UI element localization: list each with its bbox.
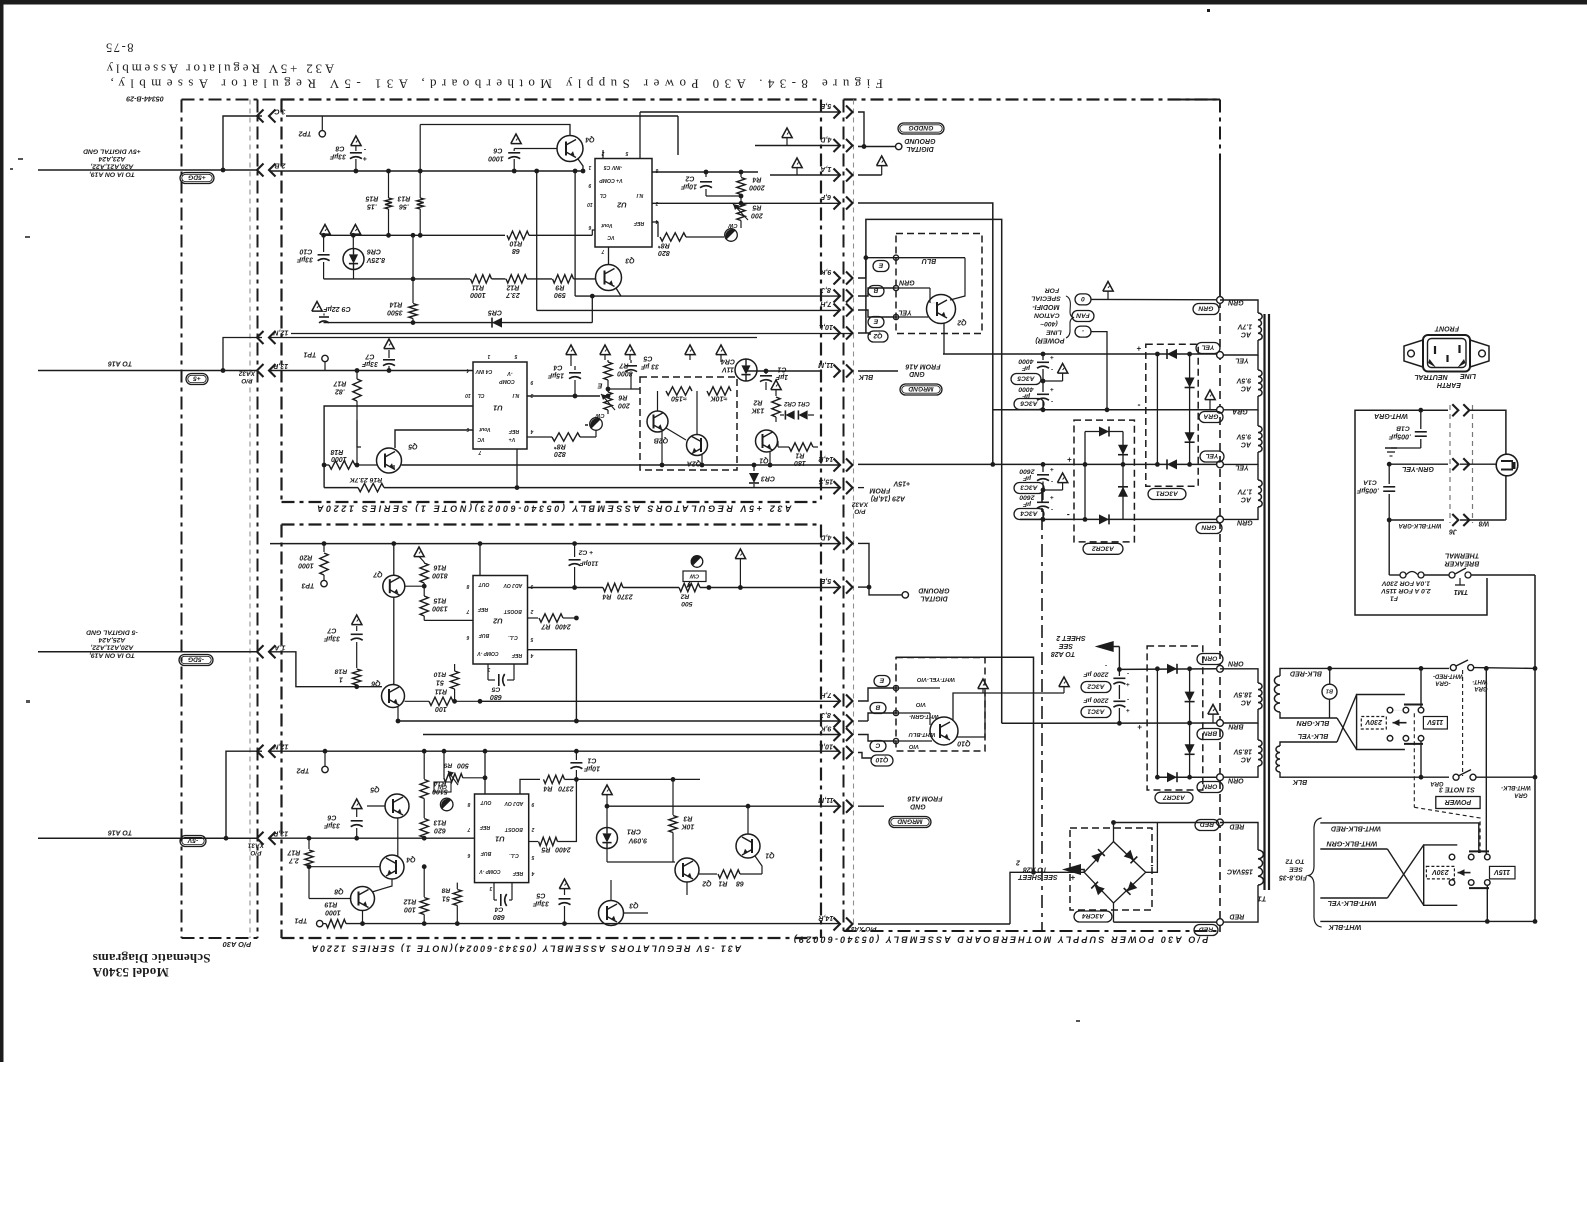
net tag C q10 [870, 741, 886, 752]
svg-text:R3: R3 [683, 815, 692, 822]
wire 11M mb [858, 370, 898, 372]
svg-text:13K: 13K [751, 407, 765, 414]
page frame left edge [0, 0, 4, 1062]
diode A3CR2c [1118, 487, 1128, 497]
bus -17 [993, 409, 1220, 411]
thermal breaker TM1 [1449, 572, 1455, 578]
svg-text:U2: U2 [616, 200, 626, 209]
net tag BRN oval [1197, 729, 1223, 740]
svg-text:R9: R9 [555, 284, 564, 291]
svg-text:100: 100 [404, 906, 416, 913]
svg-text:SPECIAL: SPECIAL [1031, 295, 1060, 302]
svg-text:R6: R6 [618, 394, 627, 401]
net label -5DG [179, 655, 213, 666]
svg-text:WHT-: WHT- [1472, 678, 1487, 684]
svg-text:100: 100 [435, 705, 447, 712]
flag 1A mb ground [858, 174, 882, 176]
resistor R1 180 [789, 443, 813, 451]
lamp B1 [1327, 666, 1332, 671]
svg-text:2.0 A FOR 115V: 2.0 A FOR 115V [1380, 587, 1432, 594]
net label A3CR7 [1155, 792, 1193, 803]
wire ov bus right [576, 778, 700, 780]
resistor R20 1000 [323, 544, 325, 552]
wire -5DG feed [38, 651, 258, 653]
wire q4 base [514, 148, 557, 150]
svg-text:1.7V: 1.7V [1236, 488, 1252, 495]
wire 7H mb lower [858, 688, 896, 701]
resistor R11 100 [405, 700, 430, 702]
capacitor A3C4 2600uF [1042, 490, 1044, 500]
svg-text:TP1: TP1 [303, 351, 316, 358]
svg-text:U1: U1 [495, 834, 505, 843]
svg-text:C1: C1 [587, 757, 596, 764]
svg-text:+5: +5 [193, 375, 201, 382]
wire q7 base link [405, 585, 424, 587]
svg-text:AC: AC [1240, 756, 1252, 763]
svg-text:WHT-BLK-RED: WHT-BLK-RED [1331, 824, 1381, 832]
svg-text:-5 DIGITAL GND: -5 DIGITAL GND [86, 629, 138, 636]
wire inlet line [1469, 410, 1506, 454]
wire 8J mb [858, 288, 896, 296]
svg-text:+: + [1067, 455, 1072, 464]
capacitor C6 33uF a31 [352, 799, 362, 809]
bus ORN lower [1157, 776, 1220, 778]
svg-text:R4: R4 [602, 593, 611, 600]
svg-text:R10: R10 [434, 671, 447, 678]
dashed box Q2A Q2B [640, 377, 737, 470]
wire U1 NI right [527, 395, 600, 397]
net label A3C5 [1011, 374, 1041, 385]
svg-text:BRN: BRN [1227, 723, 1243, 730]
svg-text:33 µF: 33 µF [640, 363, 659, 370]
resistor R17 .82 [356, 371, 358, 380]
resistor R10 51 [450, 671, 458, 689]
diode A3CR7a [1167, 664, 1177, 674]
svg-text:THERMAL: THERMAL [1445, 552, 1479, 559]
resistor R15 .15 [388, 171, 390, 198]
wire q2 collector [950, 258, 965, 300]
diode A3CR2b [1118, 445, 1128, 455]
flag row a32 lower [566, 345, 576, 355]
digital ground lower xa31 [858, 543, 902, 595]
wire q1 base r1 [777, 441, 779, 447]
resistor R4 2370 a31 [544, 775, 565, 783]
svg-text:REF: REF [633, 220, 644, 226]
svg-text:R1: R1 [795, 452, 804, 459]
node GRN top [1217, 297, 1224, 304]
svg-text:YEL: YEL [1201, 344, 1214, 351]
svg-text:XA32: XA32 [851, 501, 869, 508]
speck a [18, 158, 23, 160]
wire q7 collector [393, 544, 395, 576]
winding secondary 4 1.7V [1257, 464, 1259, 480]
svg-text:14,R: 14,R [818, 455, 834, 463]
svg-text:-: - [1051, 506, 1053, 513]
diode A3CR1d [1167, 459, 1177, 469]
svg-text:A3CR7: A3CR7 [1163, 793, 1186, 800]
svg-text:-: - [1105, 662, 1107, 669]
bridge A3CR2 right leg [1122, 432, 1124, 520]
svg-text:+: + [1050, 354, 1054, 361]
resistor R4 2000 [740, 172, 742, 177]
digital ground terminal upper [896, 143, 902, 149]
svg-text:9.09V: 9.09V [628, 837, 648, 844]
diode A3CR1c [1185, 432, 1195, 442]
node GRA [1217, 406, 1224, 413]
svg-text:9: 9 [530, 379, 533, 385]
wire q3 leads [610, 880, 612, 901]
transistor Q5 a32 [377, 448, 402, 473]
svg-text:TP1: TP1 [294, 917, 307, 924]
svg-text:4,D: 4,D [820, 533, 832, 541]
svg-text:R10: R10 [509, 240, 522, 247]
svg-text:SEE: SEE [1289, 866, 1303, 873]
svg-text:15,S: 15,S [818, 478, 833, 486]
fuse F1 [1389, 574, 1400, 576]
svg-text:8.25V: 8.25V [366, 256, 386, 263]
svg-text:2200 µF: 2200 µF [1083, 671, 1110, 678]
svg-text:6: 6 [466, 634, 469, 640]
wire q4 emitter [578, 159, 583, 171]
svg-text:33µF: 33µF [296, 256, 313, 263]
svg-text:5: 5 [514, 353, 517, 359]
wire 7H bus a31 [480, 700, 840, 702]
wire 6F mb long feed [858, 203, 993, 464]
svg-text:13,P: 13,P [273, 829, 288, 837]
bus -9.5 GRN [1020, 518, 1220, 520]
wire NI bus 6F [652, 202, 840, 204]
wire BLK-RED top [1284, 667, 1449, 669]
svg-text:FROM A16: FROM A16 [905, 363, 940, 370]
resistor R7 8000 [607, 360, 609, 362]
svg-text:10µF: 10µF [583, 765, 600, 772]
resistor R15 1300 [420, 596, 428, 616]
capacitor A3C2 2200uF [1118, 669, 1120, 676]
svg-text:BLK-RED: BLK-RED [1290, 669, 1322, 677]
svg-text:B: B [873, 287, 878, 294]
svg-text:C9 22µF: C9 22µF [323, 305, 351, 313]
svg-text:WHT-BLK-YEL: WHT-BLK-YEL [1328, 899, 1377, 907]
transistor Q8 [351, 887, 375, 911]
label +15V FROM A29 [858, 487, 864, 489]
svg-text:BOOST: BOOST [503, 608, 522, 614]
wire q8 base link [309, 898, 351, 900]
svg-text:33µF: 33µF [323, 635, 340, 642]
svg-text:TO A28: TO A28 [1051, 650, 1075, 657]
svg-text:2400: 2400 [555, 623, 572, 630]
connector pin 10,L XA32 [834, 327, 841, 340]
svg-text:E: E [873, 318, 878, 325]
wire 12N-10L full bus a31 [270, 750, 840, 752]
junction 1486 top [1484, 666, 1489, 671]
svg-text:6: 6 [466, 426, 469, 432]
svg-text:POWER: POWER [1445, 798, 1471, 805]
svg-text:33µF: 33µF [361, 360, 378, 367]
svg-text:1000: 1000 [298, 562, 314, 569]
svg-text:R19: R19 [324, 901, 337, 908]
flag 4D pair [782, 128, 792, 138]
wire BUF right drop [528, 650, 577, 721]
zener CR1 9.09V [597, 828, 618, 849]
wire 11M bus a31 [607, 805, 840, 807]
svg-text:155VAC: 155VAC [1226, 868, 1253, 875]
svg-text:R5: R5 [541, 846, 550, 853]
svg-text:AC: AC [1240, 496, 1252, 503]
wire +5V feed [38, 169, 258, 171]
svg-text:8-75: 8-75 [105, 41, 134, 55]
wire WHT-YEL-VIO [896, 687, 940, 689]
wire U1 ref drop [516, 449, 518, 488]
svg-text:-V: -V [507, 370, 513, 376]
svg-text:R14: R14 [389, 301, 402, 308]
svg-text:A32 +5V Regulator Assembly: A32 +5V Regulator Assembly [104, 61, 334, 76]
wiper circle R6 [590, 418, 603, 431]
connector spine XA32/XA31 left [249, 100, 251, 939]
wire q6 emitter [397, 707, 399, 721]
svg-text:-GRA: -GRA [1435, 679, 1450, 685]
capacitor A3C6 4000uF [1042, 381, 1044, 392]
svg-text:9,K: 9,K [820, 724, 832, 732]
bus +9.5 [990, 462, 995, 467]
flag C10 [320, 225, 330, 235]
svg-text:Q2B: Q2B [654, 437, 668, 444]
svg-text:180: 180 [794, 459, 806, 466]
wire lower selector drop [1486, 885, 1488, 921]
flag R2 [771, 380, 781, 390]
svg-text:4: 4 [530, 652, 534, 658]
diamond bridge A3CR4 [1084, 842, 1146, 903]
arrow selector lower [1458, 872, 1471, 874]
connector pin 12,N left upper [257, 331, 264, 344]
wire bottom bus a31 [346, 923, 840, 925]
pot R9 500 [443, 751, 445, 778]
svg-text:11,M: 11,M [817, 361, 833, 369]
svg-text:-: - [1127, 670, 1129, 677]
svg-text:WHT-GRA: WHT-GRA [1374, 412, 1408, 420]
diode CR3 a32 [753, 465, 755, 471]
net label +5 [186, 374, 208, 385]
svg-text:A23,A24: A23,A24 [98, 155, 126, 162]
svg-text:Q3: Q3 [625, 257, 634, 264]
svg-text:C7: C7 [364, 353, 374, 360]
wire -5 feed TO A16 [38, 370, 258, 372]
svg-text:680: 680 [490, 693, 502, 701]
svg-text:2200 µF: 2200 µF [1083, 697, 1110, 704]
svg-text:-INV C5: -INV C5 [604, 164, 623, 170]
wire 9K q10 [858, 735, 896, 742]
svg-text:R8*: R8* [554, 443, 566, 450]
svg-text:TM1: TM1 [1454, 588, 1468, 596]
svg-text:5,E: 5,E [820, 102, 831, 110]
svg-text:WHT-YEL-VIO: WHT-YEL-VIO [917, 676, 955, 682]
svg-text:A25,A24: A25,A24 [98, 636, 126, 643]
resistor R10 68 [507, 231, 529, 239]
resistor R12 100 [423, 867, 425, 897]
wire NI junction [606, 394, 611, 399]
wire 12N bus a32 [270, 337, 757, 339]
bus -18 ORN [1117, 667, 1122, 672]
svg-text:230V: 230V [1364, 718, 1383, 726]
svg-text:CATION: CATION [1033, 312, 1060, 319]
flag C7 a32 [384, 339, 394, 349]
connector dashed pair J6 [1449, 405, 1451, 523]
winding primary 2 [1280, 742, 1286, 746]
winding secondary 1 1.7V [1220, 300, 1258, 313]
svg-text:1000: 1000 [470, 291, 486, 298]
svg-text:R11: R11 [472, 284, 484, 291]
wiper circle R5 [725, 229, 738, 242]
transformer core [1263, 314, 1265, 890]
connector pin 2,B left [257, 164, 264, 177]
bridge rectifier A3CR2 box [1074, 420, 1134, 542]
svg-text:VC: VC [477, 436, 484, 442]
wire u2 top pin from bus [479, 544, 481, 576]
wire TO A28 lower arrow [1062, 864, 1081, 875]
net tag GRN bottom oval [1196, 523, 1222, 534]
svg-text:FOR: FOR [1045, 287, 1059, 294]
svg-text:14,R: 14,R [818, 914, 834, 922]
bridge A3CR1 right leg [1189, 354, 1191, 464]
svg-text:18.5V: 18.5V [1233, 691, 1253, 698]
net label A3C1 [1081, 707, 1111, 718]
svg-text:7: 7 [601, 248, 604, 254]
wire +5V bus [270, 170, 583, 172]
svg-text:-: - [1051, 478, 1053, 485]
pot R6 200 [607, 389, 609, 392]
svg-text:A3C5: A3C5 [1017, 375, 1035, 382]
svg-text:P/O: P/O [241, 377, 252, 384]
connector pin 7,H XA31 [834, 695, 841, 708]
svg-text:REF: REF [479, 824, 490, 830]
svg-text:LINE: LINE [1460, 372, 1476, 379]
svg-text:1: 1 [339, 675, 343, 683]
capacitor C1 10uF a31 [575, 770, 577, 779]
svg-text:A3C1: A3C1 [1087, 708, 1105, 715]
svg-text:REF: REF [511, 652, 522, 658]
svg-text:C10: C10 [299, 248, 312, 255]
svg-text:Q5: Q5 [370, 786, 379, 793]
svg-text:8100: 8100 [432, 572, 448, 579]
connector pin 10,L XA31 [834, 746, 841, 759]
speck f [585, 424, 588, 426]
svg-text:2370: 2370 [617, 593, 634, 600]
svg-text:+ C2: + C2 [579, 549, 594, 556]
svg-text:OUT: OUT [480, 799, 492, 805]
svg-text:C6: C6 [327, 814, 336, 821]
svg-text:68: 68 [512, 247, 520, 254]
wire 11M mb lower [858, 805, 884, 807]
bus RED upper [1114, 822, 1221, 824]
bus +18 BRN [1002, 722, 1220, 724]
node ORN 1 [1217, 665, 1224, 672]
svg-text:Q3: Q3 [629, 902, 638, 909]
round connector W8 [1496, 454, 1518, 476]
svg-text:10,L: 10,L [819, 323, 833, 331]
wire q4 base link [309, 866, 381, 868]
IC U2 regulator [595, 159, 652, 248]
svg-text:C1A: C1A [1363, 479, 1377, 486]
svg-text:0: 0 [1081, 295, 1085, 302]
wiper circle R9 [440, 798, 453, 811]
net tag RED 1 oval [1195, 820, 1219, 831]
connector pin 5,E XA31 [834, 581, 841, 594]
connector pin 13,P left upper [257, 364, 264, 377]
svg-text:J6: J6 [1449, 528, 1457, 535]
svg-text:GRN: GRN [898, 279, 915, 286]
svg-text:BLU: BLU [921, 257, 936, 264]
svg-text:E: E [879, 677, 884, 684]
wire V+ stub right [652, 171, 758, 173]
capacitor A3C1 2200uF [1113, 700, 1125, 702]
winding secondary 5 18.5V [1220, 669, 1258, 683]
svg-text:Vout: Vout [479, 426, 491, 432]
bridge rectifier A3CR1 box [1146, 344, 1198, 486]
wire q10 collector out [953, 693, 985, 720]
wire U2 top pins [602, 150, 604, 159]
svg-text:Schematic Diagrams: Schematic Diagrams [92, 951, 210, 966]
svg-text:200: 200 [751, 212, 764, 219]
wire q2a emitter to bus [701, 455, 703, 465]
wire 3C sense run [286, 115, 678, 117]
wire diamond feed [1034, 871, 1085, 873]
svg-text:51: 51 [436, 678, 444, 686]
svg-text:WHT-BLK-GRN: WHT-BLK-GRN [1326, 839, 1378, 847]
voltage card 115V upper [1423, 717, 1447, 730]
transistor Q4 [557, 136, 583, 162]
svg-text:FAN: FAN [1076, 312, 1090, 319]
resistor R8* 820 [652, 221, 658, 223]
svg-text:A3C2: A3C2 [1087, 683, 1105, 690]
svg-text:9: 9 [530, 583, 533, 589]
svg-text:+: + [1126, 681, 1130, 688]
wire WHT-GRA [1355, 409, 1444, 411]
wire 8J bus a31 [398, 720, 840, 722]
wire ADJ chain [528, 587, 604, 589]
svg-text:8: 8 [655, 167, 658, 173]
wire OV chain [520, 779, 540, 794]
CW box R2 [683, 571, 706, 582]
svg-text:230V: 230V [1431, 868, 1450, 876]
wire breaker to right rail [1471, 574, 1535, 576]
motherboard border [843, 100, 845, 932]
wire diamond bottom to RED2 [1113, 903, 1115, 922]
svg-text:MODIFI-: MODIFI- [1032, 303, 1060, 311]
flag C8 [351, 136, 361, 146]
diode A3CR7c [1185, 744, 1195, 754]
svg-text:+5DG: +5DG [188, 174, 206, 181]
svg-text:R11: R11 [435, 688, 447, 695]
svg-text:BOOST: BOOST [504, 826, 523, 832]
flag q10 gnd A [978, 679, 988, 689]
svg-text:1.7V: 1.7V [1236, 323, 1252, 330]
voltage card 115V lower [1490, 866, 1516, 879]
svg-text:.005µF: .005µF [1356, 486, 1379, 494]
svg-text:ORN: ORN [1202, 783, 1217, 790]
svg-text:10: 10 [587, 201, 593, 207]
wire E node [608, 388, 631, 390]
net label A3C4 [1014, 509, 1044, 520]
flag gnd B caps [1063, 687, 1065, 693]
selector box 230V upper [1357, 695, 1405, 750]
bus +17 top [943, 353, 1220, 355]
svg-text:YEL: YEL [1235, 357, 1249, 364]
svg-text:110µF: 110µF [579, 560, 599, 567]
svg-text:6: 6 [467, 852, 470, 858]
svg-text:REF: REF [508, 428, 519, 434]
svg-text:+: + [1070, 873, 1075, 882]
svg-text:A3C6: A3C6 [1020, 400, 1038, 407]
svg-text:33µF: 33µF [329, 153, 346, 160]
